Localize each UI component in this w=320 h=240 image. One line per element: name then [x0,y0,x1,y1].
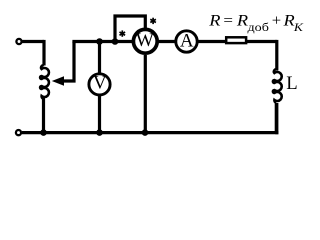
svg-text:A: A [180,30,194,51]
svg-text:V: V [93,73,107,94]
wire wattmeter to ammeter [159,40,178,43]
resistor R (R = Rdob + RK) [226,37,246,43]
wire resistor to top-right corner [247,40,277,43]
node: junction dot wattmeter bottom [142,129,149,136]
asterisk mark (wattmeter current terminal) [150,18,156,24]
wire from X1 to variac top corner [22,40,44,43]
svg-text:L: L [286,73,297,94]
node: junction dot voltmeter tap [96,38,103,45]
variac coil (autotransformer winding) [40,65,49,98]
asterisk mark (wattmeter voltage terminal) [120,30,126,36]
voltmeter V [89,74,110,95]
svg-text:W: W [136,30,154,51]
node: junction dot variac bottom [40,129,47,136]
svg-text:=: = [223,13,233,30]
inductor L [273,69,282,102]
terminal X1 (top-left input) [16,39,21,44]
wire right rail down to inductor [275,40,278,71]
terminal X2 (bottom-left input) [16,130,21,135]
svg-text:доб: доб [248,20,269,34]
svg-text:R: R [208,13,221,30]
variac wiper arrow (vertical drop and horizontal shaft) [63,42,74,82]
node: junction dot voltmeter bottom [96,129,103,136]
bottom rail wire [22,131,278,134]
node: junction dot wattmeter voltage coil tap [112,38,119,45]
wire voltmeter branch lower [98,95,101,132]
top rail wire from wiper to wattmeter [72,40,132,43]
ammeter A [176,31,197,52]
wattmeter W [133,29,157,53]
svg-text:+: + [272,13,281,30]
wire variac top lead (corner down) [42,40,45,66]
wire inductor to bottom-right corner [275,103,279,134]
wattmeter voltage coil loop wire [115,16,145,43]
wire variac bottom lead to bottom rail [42,98,45,133]
wire ammeter to resistor [197,40,227,43]
svg-text:R: R [236,13,249,30]
wire wattmeter current branch to bottom rail [144,55,147,133]
variac wiper arrowhead [52,76,64,85]
wire voltmeter branch upper [98,42,101,74]
svg-text:K: K [293,20,304,34]
